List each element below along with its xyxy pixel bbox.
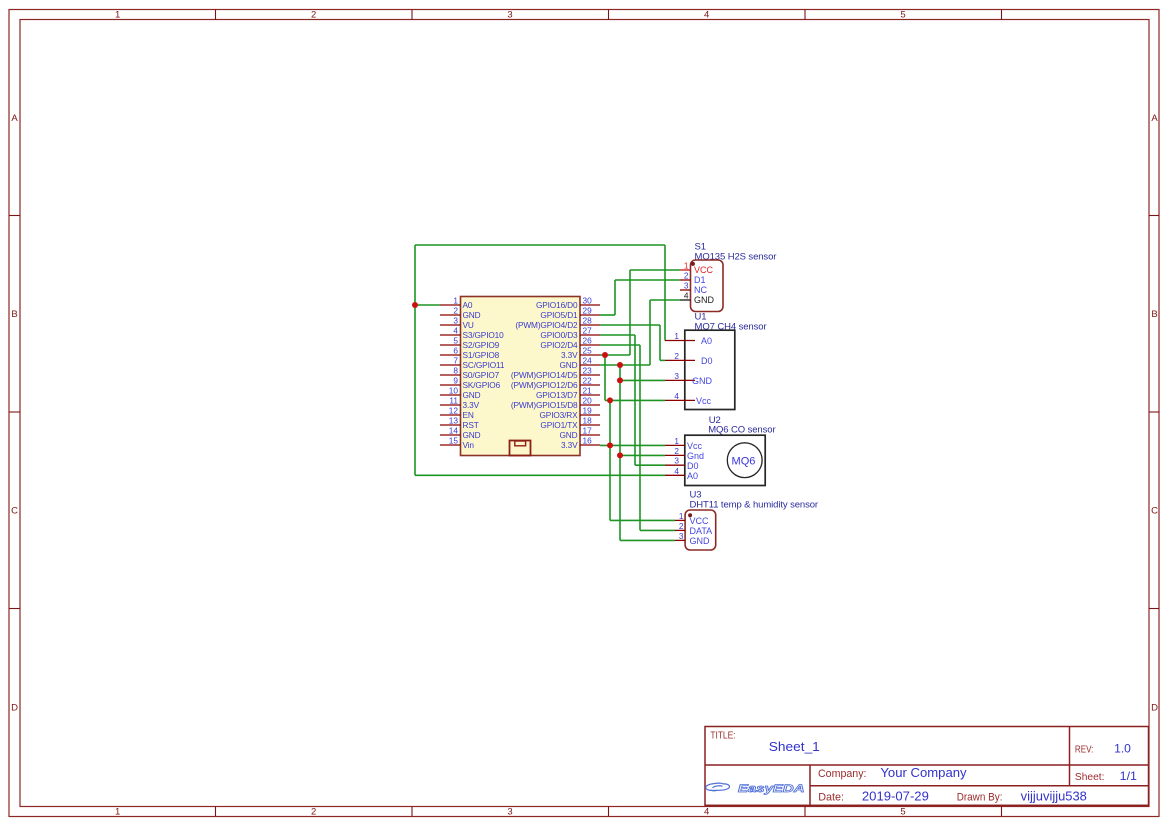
junction GND U2: [617, 452, 623, 458]
svg-text:(PWM)GPIO12/D6: (PWM)GPIO12/D6: [511, 380, 578, 390]
svg-text:2: 2: [311, 807, 316, 818]
wire 3.3V to U1.Vcc: [605, 399, 665, 401]
svg-text:1/1: 1/1: [1120, 769, 1138, 783]
svg-text:2: 2: [674, 446, 679, 456]
svg-text:C: C: [11, 506, 18, 517]
svg-text:4: 4: [674, 391, 679, 401]
svg-text:26: 26: [583, 336, 593, 346]
ruler row labels right: [1151, 113, 1158, 714]
svg-text:EN: EN: [463, 410, 474, 420]
svg-text:16: 16: [583, 436, 593, 446]
svg-text:Vcc: Vcc: [687, 441, 703, 451]
wire D3 vertical: [634, 335, 636, 465]
svg-text:Sheet_1: Sheet_1: [769, 739, 820, 754]
U3 pin stubs: [675, 520, 685, 540]
svg-text:7: 7: [453, 356, 458, 366]
svg-text:4: 4: [674, 466, 679, 476]
svg-text:2019-07-29: 2019-07-29: [862, 789, 929, 803]
svg-text:20: 20: [583, 396, 593, 406]
svg-text:REV:: REV:: [1075, 744, 1094, 755]
svg-text:S0/GPIO7: S0/GPIO7: [463, 370, 500, 380]
svg-text:13: 13: [449, 416, 459, 426]
svg-text:GND: GND: [690, 536, 711, 546]
wire 3.3V branch vertical: [604, 355, 606, 400]
svg-text:MQ6 CO sensor: MQ6 CO sensor: [708, 424, 775, 435]
svg-text:19: 19: [583, 406, 593, 416]
svg-text:1: 1: [115, 807, 120, 818]
svg-text:3.3V: 3.3V: [463, 400, 480, 410]
U3 pin numbers: [679, 511, 684, 541]
wire 3.3V from pin25: [600, 354, 630, 356]
junction 3.3V U1: [607, 397, 613, 403]
svg-text:2: 2: [684, 271, 689, 281]
svg-text:9: 9: [453, 376, 458, 386]
wire GND to S1 pin4: [650, 299, 680, 301]
S1 title: [695, 241, 777, 262]
svg-text:DHT11 temp & humidity sensor: DHT11 temp & humidity sensor: [690, 500, 819, 511]
svg-text:29: 29: [583, 306, 593, 316]
svg-text:Vin: Vin: [463, 440, 475, 450]
junction GND pin24: [617, 362, 623, 368]
svg-text:(PWM)GPIO14/D5: (PWM)GPIO14/D5: [511, 370, 578, 380]
svg-text:A: A: [1151, 113, 1158, 124]
U3 pin1 dot: [688, 513, 692, 517]
U2 pin stubs: [665, 445, 685, 475]
U2 pin names: [687, 441, 704, 481]
svg-text:Date:: Date:: [818, 791, 844, 803]
svg-text:VU: VU: [463, 320, 474, 330]
module right pin numbers: [583, 296, 593, 446]
svg-text:12: 12: [449, 406, 459, 416]
svg-text:SC/GPIO11: SC/GPIO11: [463, 360, 505, 370]
svg-text:18: 18: [583, 416, 593, 426]
svg-text:MQ6: MQ6: [732, 455, 756, 467]
svg-text:TITLE:: TITLE:: [710, 731, 735, 742]
EasyEDA logo: [706, 783, 805, 795]
wire GND vertical to S1.GND: [649, 300, 651, 365]
svg-text:3: 3: [507, 10, 512, 21]
svg-text:3: 3: [684, 281, 689, 291]
wire net A0 top horizontal: [415, 244, 665, 246]
U1 pin stubs: [665, 341, 695, 401]
svg-text:D0: D0: [687, 461, 699, 471]
ruler row labels left: [11, 113, 18, 714]
wire GND from pin24: [600, 364, 650, 366]
svg-text:A0: A0: [687, 471, 698, 481]
wire net A0 bottom horizontal to U2.A0: [415, 474, 665, 476]
svg-text:Vcc: Vcc: [696, 396, 712, 406]
svg-text:Company:: Company:: [818, 768, 867, 780]
svg-text:VCC: VCC: [690, 516, 710, 526]
svg-text:1: 1: [684, 261, 689, 271]
svg-text:15: 15: [449, 436, 459, 446]
svg-text:Gnd: Gnd: [687, 451, 704, 461]
svg-text:GPIO3/RX: GPIO3/RX: [540, 410, 579, 420]
wire D4 from pin26: [600, 344, 640, 346]
svg-text:21: 21: [583, 386, 593, 396]
junction dots: [412, 302, 623, 458]
wire 3.3V vertical to S1.VCC: [629, 270, 631, 355]
svg-text:1: 1: [453, 296, 458, 306]
usb connector symbol: [510, 441, 531, 456]
svg-text:A0: A0: [701, 336, 712, 346]
wire 3.3V to S1 pin1: [630, 269, 680, 271]
wire D3 to U2.D0: [635, 464, 665, 466]
module right pin names: [511, 300, 578, 450]
svg-text:2: 2: [311, 10, 316, 21]
U2 title: [708, 415, 775, 435]
junction 3.3V pin16: [607, 442, 613, 448]
svg-text:2: 2: [453, 306, 458, 316]
svg-text:3: 3: [679, 531, 684, 541]
wire 3.3V vertical mid: [609, 400, 611, 520]
wire GND branch vertical: [619, 365, 621, 540]
svg-text:GND: GND: [560, 430, 578, 440]
U3 pin names: [690, 516, 713, 546]
U3 body: [685, 510, 716, 550]
wire D1 vertical: [614, 280, 616, 315]
svg-text:GPIO2/D4: GPIO2/D4: [540, 340, 578, 350]
svg-text:GND: GND: [463, 390, 481, 400]
svg-text:S1/GPIO8: S1/GPIO8: [463, 350, 500, 360]
svg-text:DATA: DATA: [690, 526, 713, 536]
svg-text:5: 5: [900, 807, 905, 818]
svg-text:GND: GND: [560, 360, 578, 370]
svg-text:Drawn By:: Drawn By:: [957, 791, 1003, 803]
junction 3.3V pin25: [602, 352, 608, 358]
U1 title: [695, 312, 767, 333]
svg-text:EasyEDA: EasyEDA: [738, 783, 805, 795]
U1 body: [685, 330, 735, 409]
svg-text:25: 25: [583, 346, 593, 356]
svg-text:27: 27: [583, 326, 593, 336]
wire GND to U1.GND: [620, 379, 665, 381]
wire D2 to U1.D0: [660, 359, 665, 361]
module body: [461, 297, 581, 456]
wire D3 from pin27: [600, 334, 635, 336]
svg-text:10: 10: [449, 386, 459, 396]
svg-text:22: 22: [583, 376, 593, 386]
ruler column labels top: [115, 10, 906, 21]
svg-text:14: 14: [449, 426, 459, 436]
svg-text:vijjuvijju538: vijjuvijju538: [1021, 790, 1087, 804]
wire D2 from pin28: [600, 324, 660, 326]
module left pin names: [463, 300, 505, 450]
svg-text:24: 24: [583, 356, 593, 366]
U2 MQ6 circle: [727, 443, 762, 478]
svg-text:1: 1: [115, 10, 120, 21]
wire 3.3V to U2.Vcc / pin16: [600, 444, 665, 446]
svg-text:23: 23: [583, 366, 593, 376]
svg-text:(PWM)GPIO4/D2: (PWM)GPIO4/D2: [515, 320, 578, 330]
svg-text:4: 4: [704, 807, 709, 818]
wire D4 vertical: [639, 345, 641, 530]
wire net A0 vertical left: [414, 245, 416, 475]
svg-text:B: B: [1151, 309, 1157, 320]
wire GND to U2.Gnd: [620, 454, 665, 456]
svg-text:D: D: [11, 703, 18, 714]
svg-text:4: 4: [684, 291, 689, 301]
svg-text:30: 30: [583, 296, 593, 306]
svg-text:8: 8: [453, 366, 458, 376]
svg-text:3.3V: 3.3V: [561, 350, 578, 360]
svg-text:B: B: [11, 309, 17, 320]
svg-text:2: 2: [674, 351, 679, 361]
svg-text:GPIO1/TX: GPIO1/TX: [540, 420, 578, 430]
svg-text:4: 4: [453, 326, 458, 336]
wire D1 from pin29: [600, 314, 615, 316]
U1 pin names: [692, 336, 713, 406]
svg-text:GND: GND: [692, 376, 713, 386]
svg-text:6: 6: [453, 346, 458, 356]
title block values: [769, 739, 1138, 804]
svg-text:5: 5: [453, 336, 458, 346]
svg-text:(PWM)GPIO15/D8: (PWM)GPIO15/D8: [511, 400, 578, 410]
svg-text:3: 3: [507, 807, 512, 818]
svg-text:Your Company: Your Company: [880, 766, 967, 780]
svg-text:4: 4: [704, 10, 709, 21]
wire net A0 vertical to U1.A0: [664, 245, 666, 341]
svg-text:S3/GPIO10: S3/GPIO10: [463, 330, 505, 340]
S1 body: [691, 260, 724, 312]
wire GND to U3.GND: [620, 539, 675, 541]
S1 pin numbers: [684, 261, 689, 301]
module left pin stubs: [440, 305, 461, 445]
wire D4 to U3.DATA: [640, 529, 675, 531]
wire D2 vertical: [659, 325, 661, 360]
svg-text:2: 2: [679, 521, 684, 531]
svg-text:SK/GPIO6: SK/GPIO6: [463, 380, 501, 390]
svg-text:5: 5: [900, 10, 905, 21]
svg-text:3: 3: [453, 316, 458, 326]
svg-text:D: D: [1151, 703, 1158, 714]
svg-text:11: 11: [449, 396, 458, 406]
svg-text:NC: NC: [694, 285, 707, 295]
svg-text:A: A: [11, 113, 18, 124]
S1 pin1 dot: [691, 262, 695, 266]
svg-text:1: 1: [674, 436, 679, 446]
svg-text:1: 1: [679, 511, 684, 521]
svg-text:GND: GND: [694, 295, 715, 305]
svg-text:3: 3: [674, 456, 679, 466]
junction A0/pin1: [412, 302, 418, 308]
svg-text:GPIO16/D0: GPIO16/D0: [536, 300, 578, 310]
svg-text:17: 17: [583, 426, 593, 436]
svg-text:1.0: 1.0: [1114, 741, 1131, 755]
wire 3.3V to U3.VCC: [610, 519, 675, 521]
svg-text:3.3V: 3.3V: [561, 440, 578, 450]
svg-text:S2/GPIO9: S2/GPIO9: [463, 340, 500, 350]
svg-text:GPIO13/D7: GPIO13/D7: [536, 390, 578, 400]
svg-text:C: C: [1151, 506, 1158, 517]
U2 body: [685, 435, 765, 485]
svg-text:VCC: VCC: [694, 265, 714, 275]
svg-text:D0: D0: [701, 356, 713, 366]
wire net A0 to module pin1: [415, 304, 440, 306]
S1 pin stubs: [680, 270, 691, 300]
U1 pin numbers: [674, 331, 679, 401]
svg-text:1: 1: [674, 331, 679, 341]
svg-text:RST: RST: [463, 420, 479, 430]
svg-text:A0: A0: [463, 300, 473, 310]
svg-text:GPIO0/D3: GPIO0/D3: [540, 330, 578, 340]
svg-text:D1: D1: [694, 275, 706, 285]
ruler column labels bottom: [115, 807, 906, 818]
svg-text:3: 3: [674, 371, 679, 381]
U3 title: [690, 490, 819, 511]
svg-text:Sheet:: Sheet:: [1075, 771, 1105, 783]
U2 pin numbers: [674, 436, 679, 476]
module left pin numbers: [449, 296, 459, 446]
svg-text:GND: GND: [463, 310, 481, 320]
svg-text:GND: GND: [463, 430, 481, 440]
S1 pin names: [694, 265, 715, 305]
svg-text:28: 28: [583, 316, 593, 326]
module right pin stubs: [580, 305, 600, 445]
wire D1 to S1 pin2: [615, 279, 680, 281]
svg-text:GPIO5/D1: GPIO5/D1: [540, 310, 578, 320]
junction GND U1: [617, 377, 623, 383]
title block labels: [710, 731, 1104, 804]
